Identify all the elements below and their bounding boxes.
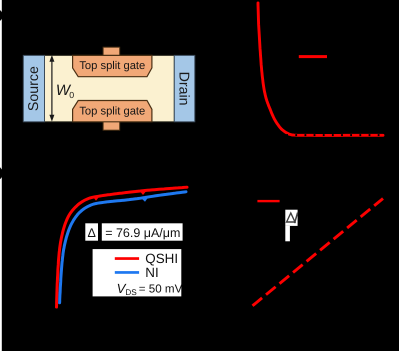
panel d dI text (drawn as shapes) xyxy=(287,213,298,224)
panel c NI marker xyxy=(142,198,149,202)
legend NI line xyxy=(115,271,139,274)
source contact xyxy=(23,55,44,121)
panel c QSHI curve (red) xyxy=(57,187,188,307)
drain contact xyxy=(174,55,195,121)
svg-text:Top split gate: Top split gate xyxy=(79,60,145,72)
svg-text:Drain: Drain xyxy=(176,72,192,106)
value label box xyxy=(102,223,183,240)
top split gate xyxy=(73,55,152,76)
panel d solid red segment xyxy=(257,200,279,202)
W0 width arrow xyxy=(49,55,54,122)
svg-text:Top split gate: Top split gate xyxy=(79,106,145,118)
svg-text:= 50 mV: = 50 mV xyxy=(139,283,183,296)
svg-text:NI: NI xyxy=(145,265,158,280)
svg-text:DS: DS xyxy=(125,288,137,297)
panel b legend line xyxy=(299,55,327,58)
channel region (device a) xyxy=(45,55,175,121)
bottom gate tab xyxy=(103,121,120,130)
panel b decay curve xyxy=(258,3,383,135)
panel d dI label box xyxy=(285,210,297,226)
panel d dashed line xyxy=(253,199,384,306)
legend box xyxy=(93,249,182,296)
delta label box xyxy=(85,223,98,240)
svg-text:Source: Source xyxy=(26,66,42,111)
top gate tab xyxy=(103,47,120,56)
W0 label xyxy=(56,82,74,100)
legend VDS text xyxy=(117,281,183,297)
panel d white arrow bar xyxy=(285,226,290,241)
svg-text:QSHI: QSHI xyxy=(145,251,178,266)
bottom split gate xyxy=(73,101,152,122)
svg-text:= 76.9 μA/μm: = 76.9 μA/μm xyxy=(105,226,180,240)
legend QSHI line xyxy=(115,257,139,260)
panel label bullet c (clipped black circle) xyxy=(0,166,3,181)
white left page edge xyxy=(0,0,2,351)
panel c QSHI markers xyxy=(93,191,147,201)
panel label bullet a (clipped black circle) xyxy=(0,9,3,22)
svg-text:Δ: Δ xyxy=(88,226,96,240)
panel c NI curve (blue) xyxy=(60,192,186,303)
svg-text:0: 0 xyxy=(69,90,74,100)
panel b curve markers (dark notches on tail) xyxy=(286,134,379,136)
